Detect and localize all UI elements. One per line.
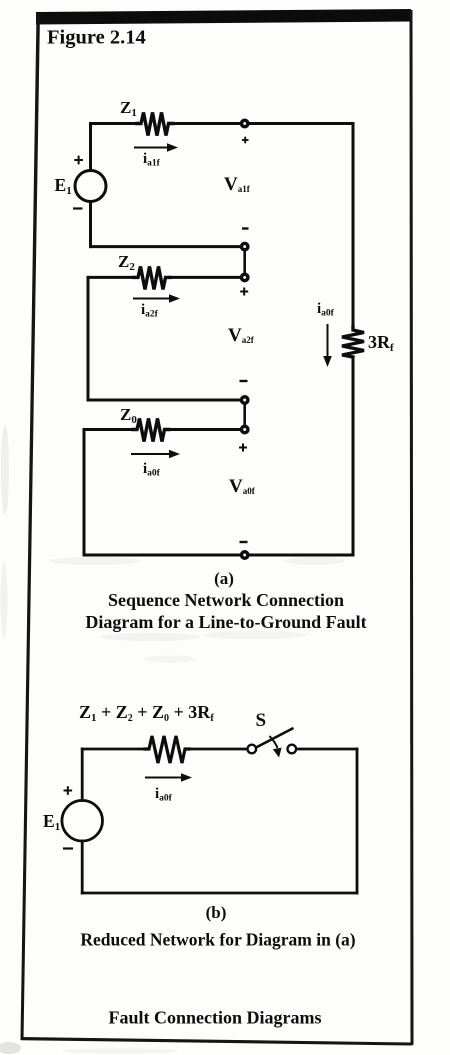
- node terminal N3: [242, 274, 248, 280]
- switch S contact left: [248, 745, 257, 754]
- voltage source E1 (b): [62, 800, 103, 841]
- label - (source a bottom): [73, 207, 83, 209]
- wire loop3 bottom: [84, 554, 353, 557]
- resistor Z1+Z2+Z0+3Rf: [145, 736, 189, 763]
- label + (node N3): [240, 288, 248, 296]
- wire (b) right vertical: [356, 749, 359, 893]
- wire (b) left vertical upper: [81, 749, 84, 801]
- svg-text:Diagram for a Line-to-Ground F: Diagram for a Line-to-Ground Fault: [85, 612, 366, 632]
- wire loop1 bottom: [91, 245, 245, 248]
- label + (source b): [64, 786, 73, 795]
- resistor Z1: [137, 113, 173, 136]
- wire loop3 top right segment: [169, 428, 245, 431]
- node terminal N1 (top): [242, 120, 248, 126]
- wire loop1 top left segment: [91, 122, 138, 125]
- wire loop1 left vertical lower: [89, 202, 92, 247]
- current arrow ia0f (loop3): [131, 450, 180, 459]
- wire right vertical upper: [352, 124, 355, 328]
- node terminal N4: [242, 397, 248, 403]
- svg-text:(b): (b): [206, 903, 227, 922]
- label - (source b): [63, 847, 73, 849]
- label - (node N4): [240, 380, 248, 382]
- current arrow ia1f: [134, 143, 178, 152]
- voltage source E1 (a): [75, 171, 106, 202]
- wire loop2 bottom: [88, 399, 245, 402]
- label - (node N6): [240, 541, 248, 543]
- resistor 3Rf: [342, 327, 364, 357]
- wire loop1 left vertical upper: [89, 124, 92, 171]
- current arrow ia0f (b): [145, 773, 192, 782]
- svg-text:Figure 2.14: Figure 2.14: [47, 27, 146, 49]
- resistor Z0: [133, 419, 169, 442]
- wire loop2 left vertical: [87, 277, 90, 400]
- wire loop3 top left segment: [84, 428, 133, 431]
- svg-text:Z1 + Z2 + Z0 + 3Rf: Z1 + Z2 + Z0 + 3Rf: [79, 702, 214, 724]
- wire right vertical lower: [352, 357, 355, 555]
- wire loop2 top right segment: [170, 276, 245, 279]
- node terminal N6 (bottom): [242, 552, 248, 558]
- current arrow ia2f: [133, 294, 180, 303]
- wire loop1 top right segment: [173, 122, 353, 125]
- node terminal N2: [242, 243, 248, 249]
- current arrow ia0f (right branch, downward): [323, 324, 332, 367]
- resistor Z2: [134, 266, 170, 289]
- svg-text:(a): (a): [214, 569, 234, 588]
- wire loop3 left vertical: [83, 430, 86, 556]
- wire (b) top left segment: [82, 748, 145, 751]
- switch S contact right: [288, 745, 297, 754]
- label - (node N2): [242, 227, 249, 229]
- label + (node N5): [239, 444, 247, 452]
- label + (source a top): [74, 156, 83, 165]
- switch S closing arrow: [270, 736, 282, 758]
- wire (b) bottom: [82, 892, 357, 895]
- wire (b) top mid segment: [189, 748, 247, 751]
- wire (b) top right segment: [297, 748, 357, 751]
- label + (node N1): [242, 137, 249, 144]
- svg-text:Fault Connection Diagrams: Fault Connection Diagrams: [109, 1008, 322, 1028]
- node terminal N5: [242, 426, 248, 432]
- svg-text:S: S: [256, 710, 267, 731]
- wire link node1-node2: [243, 247, 246, 278]
- svg-text:Reduced Network for Diagram in: Reduced Network for Diagram in (a): [80, 930, 355, 950]
- wire link node3-node4: [243, 400, 246, 430]
- switch S blade: [256, 728, 294, 748]
- wire loop2 top left segment: [88, 276, 134, 279]
- wire (b) left vertical lower: [81, 841, 84, 893]
- svg-text:Sequence Network Connection: Sequence Network Connection: [108, 590, 344, 610]
